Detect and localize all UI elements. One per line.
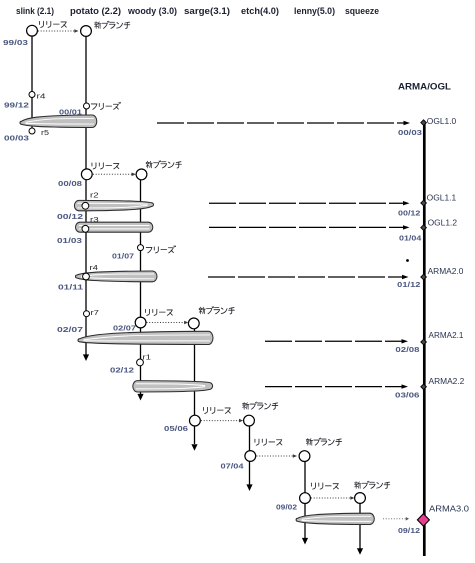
svg-text:OGL1.2: OGL1.2 xyxy=(428,219,458,228)
svg-text:00/03: 00/03 xyxy=(398,128,422,137)
svg-text:r3: r3 xyxy=(90,217,99,224)
svg-text:ARMA/OGL: ARMA/OGL xyxy=(398,82,451,93)
svg-text:OGL1.1: OGL1.1 xyxy=(427,194,457,203)
svg-text:00/03: 00/03 xyxy=(4,134,29,143)
svg-text:00/12: 00/12 xyxy=(398,209,420,218)
svg-text:00/12: 00/12 xyxy=(57,212,83,221)
svg-text:ARMA2.0: ARMA2.0 xyxy=(428,267,464,276)
svg-text:sarge(3.1): sarge(3.1) xyxy=(184,6,230,16)
svg-text:OGL1.0: OGL1.0 xyxy=(427,117,457,126)
svg-text:potato (2.2): potato (2.2) xyxy=(70,6,121,16)
svg-text:05/06: 05/06 xyxy=(164,424,188,433)
svg-text:01/11: 01/11 xyxy=(58,283,83,292)
svg-text:07/04: 07/04 xyxy=(221,462,245,471)
svg-text:ARMA2.2: ARMA2.2 xyxy=(429,377,465,386)
svg-text:99/03: 99/03 xyxy=(3,38,28,47)
svg-text:r1: r1 xyxy=(143,355,152,362)
svg-text:etch(4.0): etch(4.0) xyxy=(241,6,279,16)
svg-text:99/12: 99/12 xyxy=(4,101,29,110)
svg-text:02/08: 02/08 xyxy=(395,345,419,354)
svg-text:09/02: 09/02 xyxy=(276,503,297,512)
svg-text:ARMA2.1: ARMA2.1 xyxy=(429,331,464,340)
svg-text:01/04: 01/04 xyxy=(399,234,422,243)
svg-text:09/12: 09/12 xyxy=(398,526,420,535)
svg-text:r4: r4 xyxy=(37,94,46,101)
svg-text:00/08: 00/08 xyxy=(58,179,82,188)
svg-text:r5: r5 xyxy=(41,130,49,137)
svg-text:01/07: 01/07 xyxy=(112,252,134,261)
svg-text:02/12: 02/12 xyxy=(110,365,134,374)
svg-text:woody (3.0): woody (3.0) xyxy=(127,6,177,16)
svg-text:02/07: 02/07 xyxy=(57,325,83,334)
svg-text:slink (2.1): slink (2.1) xyxy=(16,6,54,16)
svg-text:00/01: 00/01 xyxy=(59,108,82,117)
svg-text:squeeze: squeeze xyxy=(345,6,379,16)
svg-text:ARMA3.0: ARMA3.0 xyxy=(429,505,470,514)
svg-text:r4: r4 xyxy=(90,265,99,272)
svg-text:lenny(5.0): lenny(5.0) xyxy=(294,6,335,16)
svg-text:r2: r2 xyxy=(90,193,99,200)
svg-text:01/03: 01/03 xyxy=(57,236,82,245)
svg-text:r7: r7 xyxy=(91,310,100,317)
svg-text:02/07: 02/07 xyxy=(113,324,136,333)
svg-text:03/06: 03/06 xyxy=(395,391,420,400)
svg-text:01/12: 01/12 xyxy=(397,280,420,289)
